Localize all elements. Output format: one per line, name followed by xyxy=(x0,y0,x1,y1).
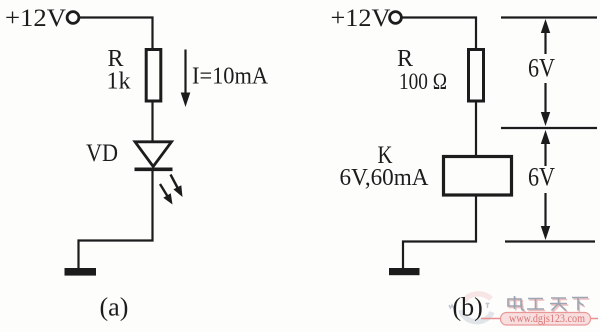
LED cathode bar xyxy=(135,168,173,172)
watermark text xia (down) red shadow xyxy=(573,299,589,312)
terminal circle (b) xyxy=(390,12,402,24)
watermark text tian (sky) xyxy=(550,298,567,311)
svg-text:VD: VD xyxy=(86,140,118,167)
svg-text:6V: 6V xyxy=(528,54,555,83)
wire LED to ground node (a) xyxy=(79,171,153,269)
svg-text:(b): (b) xyxy=(453,293,483,322)
wire resistor to LED xyxy=(151,101,153,142)
svg-text:1k: 1k xyxy=(107,69,131,95)
relay K coil box xyxy=(444,157,512,196)
watermark logo circle xyxy=(461,294,492,322)
LED VD anode triangle xyxy=(135,142,172,167)
wire from terminal to resistor (b) xyxy=(402,18,477,50)
resistor R body (b) xyxy=(469,50,484,102)
svg-text:I=10mA: I=10mA xyxy=(192,64,269,90)
wire resistor to relay xyxy=(475,101,477,157)
LED light emission arrow 1 xyxy=(171,175,183,198)
dimension reference line top xyxy=(501,16,597,18)
current arrow I xyxy=(181,50,191,108)
svg-text:6V: 6V xyxy=(528,163,555,192)
resistor R body (a) xyxy=(146,50,161,102)
wire from terminal to resistor (a) xyxy=(79,18,153,50)
watermark text tian (sky) red shadow xyxy=(551,300,568,313)
wire relay to ground node (b) xyxy=(403,195,476,269)
svg-text:www.dgjs123.com: www.dgjs123.com xyxy=(509,311,586,325)
svg-text:6V,60mA: 6V,60mA xyxy=(340,165,430,191)
ground symbol (b) xyxy=(389,268,420,275)
watermark text xia (down) xyxy=(572,298,588,311)
watermark faint mark left of (b) xyxy=(449,305,455,308)
dimension arrow 6V lower, up head xyxy=(541,130,550,166)
dimension arrow 6V upper, up head xyxy=(541,19,550,54)
terminal circle (a) xyxy=(67,12,79,24)
svg-text:(a): (a) xyxy=(100,293,129,322)
watermark text dian (electric) red shadow xyxy=(509,298,526,312)
dimension reference line middle xyxy=(501,127,597,129)
dimension arrow 6V upper, down head xyxy=(541,83,550,126)
watermark faint mark right of (b) xyxy=(486,304,490,309)
watermark text gong (work) xyxy=(527,299,544,310)
dimension arrow 6V lower, down head xyxy=(541,193,550,240)
LED light emission arrow 2 xyxy=(160,184,173,205)
svg-text:100 Ω: 100 Ω xyxy=(399,69,447,94)
dimension reference line bottom xyxy=(505,240,595,242)
watermark text gong (work) red shadow xyxy=(528,300,545,311)
svg-text:+12V: +12V xyxy=(331,5,391,32)
ground symbol (a) xyxy=(65,268,97,276)
watermark url band xyxy=(481,313,598,326)
svg-text:+12V: +12V xyxy=(5,5,66,32)
watermark text dian (electric) xyxy=(508,296,525,310)
